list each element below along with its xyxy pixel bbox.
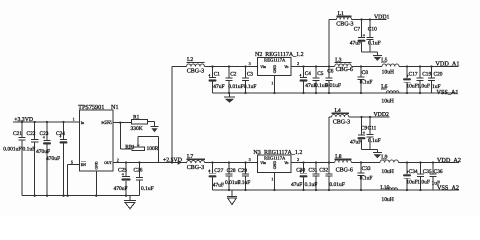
svg-text:10uH: 10uH xyxy=(382,70,394,76)
N3 GND pin wire xyxy=(274,173,276,191)
svg-text:Vo: Vo xyxy=(284,161,288,165)
wire R1 to ground xyxy=(148,122,155,127)
pin number 1 (N3 GND) xyxy=(271,177,273,182)
svg-text:Vo: Vo xyxy=(284,65,288,69)
capacitor C25 xyxy=(114,163,131,196)
svg-text:10uF: 10uF xyxy=(406,180,417,186)
svg-text:47uF: 47uF xyxy=(213,182,224,188)
svg-text:OUT: OUT xyxy=(104,161,112,165)
pin number 1 (N2 GND) xyxy=(271,81,273,86)
ground symbol below C9/C11 xyxy=(373,153,382,159)
capacitor C9 xyxy=(350,117,367,149)
svg-text:C6: C6 xyxy=(327,69,334,75)
svg-text:0.1uF: 0.1uF xyxy=(360,79,373,85)
svg-text:C27: C27 xyxy=(214,168,223,174)
svg-text:C2: C2 xyxy=(230,71,237,77)
capacitor C28 xyxy=(225,163,240,191)
svg-text:C25: C25 xyxy=(118,168,127,174)
N1 pin label OUT xyxy=(104,161,112,165)
resistor R1 xyxy=(131,115,148,132)
wire riser C6 node up to L1 xyxy=(329,20,337,67)
svg-text:GND: GND xyxy=(95,161,99,169)
net label VDD_A1 xyxy=(435,61,459,68)
svg-text:R1: R1 xyxy=(133,115,140,121)
svg-text:C21: C21 xyxy=(13,131,22,137)
capacitor C27 xyxy=(208,163,224,191)
svg-text:CBG-3: CBG-3 xyxy=(187,68,204,74)
svg-text:47uF: 47uF xyxy=(291,182,302,188)
capacitor C4 xyxy=(299,67,317,94)
top ground rail xyxy=(213,92,432,94)
svg-text:CBG-3: CBG-3 xyxy=(333,120,350,126)
inductor L10 10uH xyxy=(380,185,397,203)
pin number 3 (N3 Vin) xyxy=(249,157,251,162)
svg-text:3: 3 xyxy=(249,157,251,162)
svg-text:REG1117A: REG1117A xyxy=(264,155,286,160)
net VDD_A2 wire xyxy=(399,161,460,163)
capacitor C3 xyxy=(242,67,257,94)
bottom ground rail xyxy=(213,189,434,191)
capacitor C1 xyxy=(208,67,224,94)
wire EN pin of N1 to ground rail xyxy=(68,164,80,195)
svg-text:N2: N2 xyxy=(255,52,262,58)
inductor L8 (CBG-6) xyxy=(335,154,353,173)
svg-text:CBG-6: CBG-6 xyxy=(336,167,353,173)
wire riser C32 node up to L4 xyxy=(329,117,332,163)
svg-text:VDD_A2: VDD_A2 xyxy=(437,157,461,164)
ground symbol below top rail xyxy=(224,93,235,103)
regulator U/N1 TPS75901 body xyxy=(78,104,118,171)
net label VDD_A2 xyxy=(437,157,461,164)
capacitor C35 xyxy=(417,163,432,191)
pin number 3 (N2 Vin) xyxy=(249,61,251,66)
inductor L2 (CBG-3) xyxy=(187,57,205,74)
svg-text:C31: C31 xyxy=(309,168,318,174)
N1 GND pin wire to ground rail xyxy=(95,171,97,196)
svg-text:C26: C26 xyxy=(134,168,143,174)
net +3.3VD power rail xyxy=(13,117,80,123)
wire N1 OUT to +2.5VD node xyxy=(113,161,187,163)
wire L3 to L5 xyxy=(351,65,382,67)
svg-text:0.1uF: 0.1uF xyxy=(305,182,318,188)
svg-text:C33: C33 xyxy=(362,166,371,172)
ground symbol below bottom rail xyxy=(227,190,237,205)
capacitor C6 xyxy=(325,67,341,94)
svg-text:CBG-6: CBG-6 xyxy=(336,67,353,73)
net VDD2 wire xyxy=(349,116,390,118)
capacitor C34 xyxy=(403,163,418,191)
svg-text:1.0uF: 1.0uF xyxy=(417,180,430,186)
svg-text:VDD2: VDD2 xyxy=(374,112,390,118)
capacitor C21 xyxy=(3,122,25,196)
inductor L4 (CBG-3) xyxy=(332,108,351,125)
capacitor C2 xyxy=(225,67,243,94)
svg-text:3: 3 xyxy=(249,61,251,66)
svg-text:C3: C3 xyxy=(247,71,254,77)
svg-text:C4: C4 xyxy=(305,71,312,77)
svg-text:C32: C32 xyxy=(319,168,328,174)
capacitor C33 xyxy=(357,163,372,191)
wire PG junction down to RP1 xyxy=(120,123,132,149)
svg-text:C20: C20 xyxy=(434,71,443,77)
pin number 2 (N3 Vout) xyxy=(297,157,299,162)
capacitor C5 xyxy=(312,67,327,94)
svg-text:N1: N1 xyxy=(111,104,119,111)
svg-text:C22: C22 xyxy=(27,131,36,137)
wire N2 Vout to L3 xyxy=(291,65,335,67)
svg-text:C17: C17 xyxy=(409,71,418,77)
svg-text:C7: C7 xyxy=(354,26,361,32)
svg-text:0.01uF: 0.01uF xyxy=(228,84,243,90)
svg-text:C5: C5 xyxy=(317,71,324,77)
svg-text:N3: N3 xyxy=(253,150,260,156)
svg-text:C8: C8 xyxy=(362,70,369,76)
capacitor C11 xyxy=(366,117,380,149)
capacitor C32 xyxy=(319,163,345,191)
svg-text:1: 1 xyxy=(73,116,75,121)
svg-text:VSS_A1: VSS_A1 xyxy=(437,89,459,96)
ground symbol below C7/C10 xyxy=(373,55,382,61)
net label VDD1 xyxy=(374,14,390,20)
N2 GND pin wire xyxy=(274,76,276,94)
svg-text:1: 1 xyxy=(271,81,273,86)
regulator N2 REG1117A_1.2 body xyxy=(255,52,304,76)
N1 pin label EN xyxy=(81,162,86,167)
wire N3 Vout to L8 xyxy=(291,161,335,163)
capacitor C36 xyxy=(429,163,442,191)
regulator N3 REG1117A_1.2 body xyxy=(253,150,302,173)
inductor L1 (CBG-3) xyxy=(336,11,353,28)
svg-text:0.1uF: 0.1uF xyxy=(238,180,251,186)
svg-text:VSS_A2: VSS_A2 xyxy=(437,185,459,192)
svg-text:470uF: 470uF xyxy=(114,186,128,192)
svg-text:2: 2 xyxy=(297,61,299,66)
svg-text:1.0uF: 1.0uF xyxy=(417,84,430,90)
wire C7/C10 to ground xyxy=(362,52,378,55)
svg-text:EN: EN xyxy=(81,163,86,167)
wire L2 to N2 Vin xyxy=(205,65,258,67)
capacitor C19 xyxy=(416,67,431,94)
svg-text:C11: C11 xyxy=(368,125,377,131)
svg-text:10uH: 10uH xyxy=(381,99,393,105)
pin number 2 (OUT pin of N1) xyxy=(117,158,119,163)
pin number 2 (N2 Vout) xyxy=(297,61,299,66)
svg-text:C24: C24 xyxy=(56,131,65,137)
svg-text:47uF: 47uF xyxy=(350,139,361,145)
capacitor C7 xyxy=(350,20,366,53)
wire N1 PG pin to R1 xyxy=(113,121,132,123)
svg-text:0.1uF: 0.1uF xyxy=(360,176,373,182)
pin number 1 (IN pin of N1) xyxy=(73,116,75,121)
svg-text:C9: C9 xyxy=(361,125,368,131)
net VDD_A1 wire xyxy=(399,65,459,67)
svg-text:C30: C30 xyxy=(296,168,305,174)
svg-text:C1: C1 xyxy=(214,71,221,77)
svg-text:47uF: 47uF xyxy=(213,84,224,90)
svg-text:100R: 100R xyxy=(147,146,159,152)
svg-text:0.1uF: 0.1uF xyxy=(23,147,36,153)
svg-text:2: 2 xyxy=(297,157,299,162)
svg-text:470uF: 470uF xyxy=(36,149,50,155)
wire RP1 wiper to +2.5VD node xyxy=(138,137,158,163)
svg-text:1: 1 xyxy=(271,177,273,182)
svg-text:0.1uF: 0.1uF xyxy=(368,138,381,144)
svg-text:2: 2 xyxy=(117,158,119,163)
svg-text:0.01uF: 0.01uF xyxy=(329,182,344,188)
svg-text:10uF: 10uF xyxy=(406,84,417,90)
svg-text:In: In xyxy=(81,121,84,125)
svg-text:VDD_A1: VDD_A1 xyxy=(435,61,459,68)
N1 pin label In xyxy=(81,121,84,125)
svg-text:REG1117A: REG1117A xyxy=(264,58,286,63)
svg-text:330K: 330K xyxy=(131,126,143,132)
svg-text:TPS75901: TPS75901 xyxy=(78,104,104,111)
net VSS_A2 wire and label xyxy=(433,185,459,192)
junction dots on +3.3VD rail xyxy=(21,121,65,123)
potentiometer RP1 xyxy=(125,144,159,152)
net VSS_A1 wire and label xyxy=(432,89,459,96)
svg-text:47uF: 47uF xyxy=(350,40,361,46)
svg-text:C23: C23 xyxy=(40,131,49,137)
capacitor C31 xyxy=(305,163,320,191)
ground symbol below C25/C26 xyxy=(124,196,136,209)
svg-text:5: 5 xyxy=(71,159,73,164)
wire riser +2.5VD up to L2 row xyxy=(172,67,187,163)
capacitor C23 xyxy=(36,122,51,196)
svg-text:470uF: 470uF xyxy=(46,156,60,162)
inductor L6 10uH xyxy=(381,84,399,105)
svg-text:C34: C34 xyxy=(409,169,418,175)
svg-text:C29: C29 xyxy=(238,168,247,174)
net label VDD2 xyxy=(374,112,390,118)
N1 pin label GND (vertical) xyxy=(95,161,99,169)
capacitor C26 xyxy=(134,163,154,196)
svg-text:Vin: Vin xyxy=(260,161,266,165)
wire C9/C11 to ground xyxy=(362,149,378,152)
svg-text:PG/PG: PG/PG xyxy=(101,121,112,125)
capacitor C29 xyxy=(238,163,251,191)
capacitor C8 xyxy=(357,67,372,94)
svg-text:C19: C19 xyxy=(422,71,431,77)
capacitor C22 xyxy=(23,122,39,196)
pin number 5 (EN pin of N1) xyxy=(71,159,73,164)
inductor L3 (CBG-6) xyxy=(335,58,353,74)
svg-text:GND: GND xyxy=(273,65,277,74)
svg-text:0.1uF: 0.1uF xyxy=(141,186,154,192)
capacitor C17 xyxy=(403,67,418,94)
svg-text:C36: C36 xyxy=(434,169,443,175)
svg-text:VDD1: VDD1 xyxy=(374,14,390,20)
capacitor C30 xyxy=(291,163,308,191)
svg-text:C28: C28 xyxy=(227,168,236,174)
wire L8 to L9 xyxy=(351,161,380,163)
net VDD1 wire xyxy=(352,18,387,20)
svg-text:0.1uF: 0.1uF xyxy=(244,84,257,90)
inductor L5 10uH xyxy=(381,57,399,75)
svg-text:0.01uF: 0.01uF xyxy=(326,83,341,89)
svg-text:CBG-3: CBG-3 xyxy=(187,165,204,171)
svg-text:Vin: Vin xyxy=(260,65,266,69)
inductor L9 10uH xyxy=(380,155,399,175)
N1 pin label PG/PG xyxy=(101,120,112,125)
wire L7 to N3 Vin xyxy=(205,161,258,163)
svg-text:10uH: 10uH xyxy=(381,197,393,203)
capacitor C10 xyxy=(366,20,380,53)
svg-text:RP1: RP1 xyxy=(125,144,135,150)
capacitor C20 xyxy=(428,67,443,94)
svg-text:0.1uF: 0.1uF xyxy=(368,40,381,46)
svg-text:CBG-3: CBG-3 xyxy=(336,22,353,28)
left-section ground rail xyxy=(22,195,140,197)
ground symbol at R1 xyxy=(151,127,159,133)
power port arrow of +2.5VD xyxy=(178,160,182,165)
svg-text:10uH: 10uH xyxy=(381,169,393,175)
svg-text:0.001uF: 0.001uF xyxy=(3,147,21,153)
capacitor C24 xyxy=(46,122,68,196)
net label +2.5VD xyxy=(163,158,182,164)
svg-text:GND: GND xyxy=(273,161,277,170)
svg-text:C10: C10 xyxy=(368,26,377,32)
inductor L7 (CBG-3) xyxy=(187,154,205,171)
